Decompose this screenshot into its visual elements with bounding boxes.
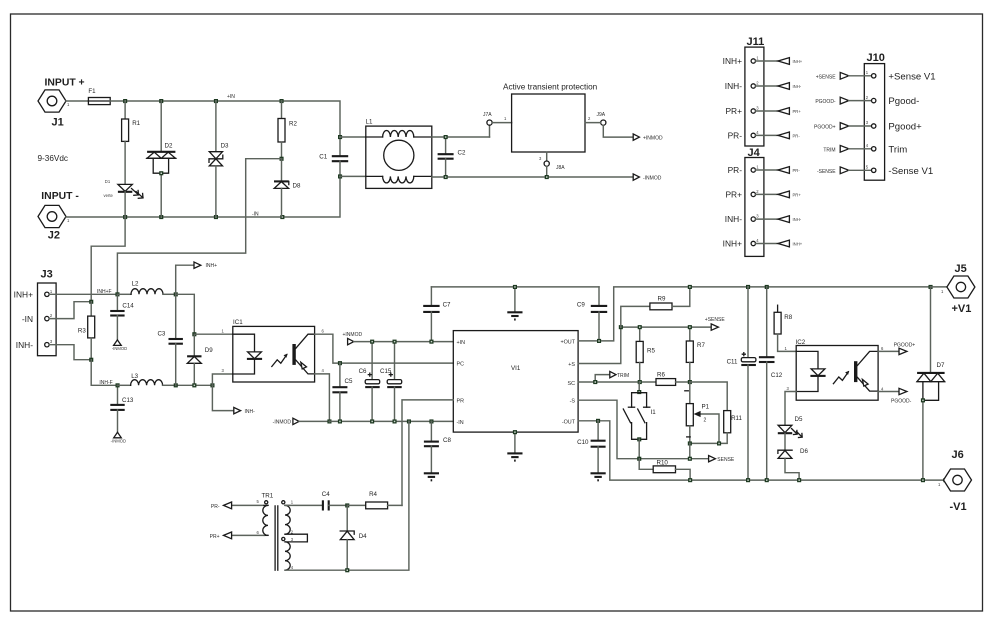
svg-text:Trim: Trim [888, 144, 907, 155]
svg-text:-IN: -IN [457, 420, 464, 426]
svg-text:INH-: INH- [793, 84, 802, 89]
node junction J8A rail [545, 175, 549, 179]
node junction C12 rail [765, 285, 769, 289]
resistor R1 [122, 101, 141, 141]
svg-text:PR: PR [457, 398, 465, 404]
wire C1 to L1 bottom [340, 175, 366, 177]
node junction C5 top [338, 361, 342, 365]
node junction J6 [943, 478, 947, 482]
net arrow -SENSE [709, 456, 735, 464]
wire -IN bottom rail [66, 176, 340, 217]
J10 pin 5 -Sense [817, 165, 933, 177]
svg-text:PR+: PR+ [793, 192, 802, 197]
svg-text:C15: C15 [380, 368, 392, 375]
node junction I1 bottom [637, 457, 641, 461]
node junction VI1 bottom [513, 430, 517, 434]
J3 pin 1 INH+ [14, 289, 53, 300]
svg-text:R9: R9 [658, 296, 666, 303]
inductor L2 [117, 281, 175, 295]
node junction D3 bottom rail [214, 215, 218, 219]
connector J5 [941, 263, 975, 315]
svg-text:P1: P1 [702, 404, 710, 411]
connector J8A [539, 152, 565, 177]
node junction D8 bottom rail [280, 215, 284, 219]
J11 pin 4 PR- [728, 130, 801, 141]
common-mode choke L1 [366, 119, 432, 189]
net arrow PR- [211, 502, 232, 510]
capacitor C14 [110, 294, 134, 340]
svg-text:-Sense V1: -Sense V1 [888, 166, 933, 177]
transformer TR1 [232, 493, 308, 571]
svg-text:PC: PC [457, 362, 465, 368]
wire IC1 pin4 down [315, 374, 330, 422]
svg-text:C13: C13 [122, 397, 134, 404]
J11 pin 1 INH+ [723, 56, 803, 67]
svg-text:J10: J10 [867, 52, 885, 64]
svg-text:R7: R7 [697, 342, 705, 349]
capacitor C10 [577, 421, 605, 474]
wire D6 to bottom rail [785, 458, 799, 480]
svg-text:INH+F: INH+F [97, 289, 112, 295]
capacitor C8 [424, 421, 452, 473]
svg-text:-SENSE: -SENSE [817, 169, 836, 175]
zener D6 [778, 433, 809, 458]
node junction R5/I1 [638, 380, 642, 384]
wire IC2 pin4 PGOOD- [878, 387, 912, 405]
wire PC line [340, 362, 453, 364]
node junction R2/D8 [280, 157, 284, 161]
net arrow TRIM [595, 371, 629, 382]
J4 pin 4 INH+ [723, 238, 803, 249]
J10 pin 1 +Sense [816, 70, 936, 82]
svg-text:D7: D7 [937, 362, 945, 369]
net arrow +INMOD out [633, 134, 663, 142]
wire J3 pin2 to R3 top node [49, 302, 91, 319]
svg-text:PR+: PR+ [725, 189, 742, 199]
svg-text:I1: I1 [651, 409, 657, 416]
capacitor C11 polarized [727, 287, 756, 480]
svg-text:PR-: PR- [793, 168, 801, 173]
capacitor C6 polarized [359, 342, 380, 422]
svg-text:C1: C1 [319, 154, 327, 161]
switch I1 [623, 382, 656, 459]
wire R3 bottom to INH-F node [91, 360, 117, 386]
node junction D1 bottom rail [123, 215, 127, 219]
svg-text:-IN: -IN [22, 314, 33, 324]
wire -IN rail drop to R3 top [91, 217, 125, 302]
svg-text:R1: R1 [132, 120, 140, 127]
svg-text:PGOOD+: PGOOD+ [814, 125, 836, 131]
connector J10 [864, 52, 885, 180]
power flag -INMOD C14 [112, 340, 127, 351]
resistor R8 [774, 305, 796, 351]
svg-text:C4: C4 [322, 491, 330, 498]
svg-text:D8: D8 [293, 183, 301, 190]
svg-text:INH-: INH- [793, 217, 802, 222]
svg-text:C5: C5 [345, 378, 353, 385]
net arrow -INMOD out [633, 174, 662, 182]
capacitor C1 [319, 137, 348, 176]
power flag -INMOD C13 [111, 432, 126, 443]
potentiometer P1 [685, 382, 719, 443]
wire TR1 pin1 to C4 [285, 504, 323, 506]
node junction D7 box [921, 398, 925, 402]
connector J9A [585, 112, 633, 137]
svg-text:R3: R3 [78, 328, 86, 335]
TVS D2 [147, 101, 176, 217]
svg-text:IC2: IC2 [796, 339, 806, 346]
node junction D9 bottom [192, 383, 196, 387]
svg-text:J2: J2 [48, 230, 60, 242]
svg-text:INH+: INH+ [14, 290, 33, 300]
svg-text:-INMOD: -INMOD [112, 346, 127, 351]
wire PR line [402, 400, 453, 506]
node junction C1 top [338, 135, 342, 139]
ground VI1 bottom [507, 432, 522, 461]
node junction wiper [717, 441, 721, 445]
svg-text:J5: J5 [955, 263, 967, 275]
svg-text:INH+: INH+ [793, 59, 803, 64]
wire SC line [578, 381, 656, 383]
svg-text:L1: L1 [366, 119, 373, 126]
svg-text:SENSE: SENSE [717, 457, 735, 463]
optocoupler IC1 [233, 319, 315, 382]
bidirectional zener D3 [209, 101, 229, 217]
node junction C8 top [429, 419, 433, 423]
active transient protection box [503, 83, 598, 153]
svg-text:+Sense V1: +Sense V1 [888, 71, 935, 82]
resistor R4 [347, 491, 402, 509]
capacitor C15 polarized [380, 342, 402, 422]
J11 pin 2 INH- [725, 81, 802, 92]
LED D1 [104, 141, 144, 217]
svg-text:J7A: J7A [483, 112, 492, 118]
capacitor C13 [110, 385, 134, 432]
node junction J5 [929, 285, 933, 289]
resistor R5 [636, 327, 655, 382]
node junction R7/P1 [688, 380, 692, 384]
connector J4 [745, 147, 764, 256]
svg-text:R6: R6 [657, 372, 665, 379]
node junction C6 top [370, 340, 374, 344]
svg-text:-IN: -IN [252, 212, 259, 218]
node junction TR1 riser [407, 419, 411, 423]
svg-text:J9A: J9A [597, 112, 606, 118]
resistor R10 [639, 459, 690, 480]
net arrow -INMOD in [273, 418, 330, 425]
node junction -S/P1 [688, 457, 692, 461]
capacitor C5 [332, 363, 353, 421]
svg-text:C11: C11 [727, 359, 738, 366]
wire P1 bottom to -S line [689, 443, 691, 458]
net arrow +SENSE [705, 317, 726, 330]
wire top line C7 to C9 [431, 286, 599, 288]
svg-text:C2: C2 [458, 150, 466, 157]
J4 pin 1 PR- [728, 165, 801, 176]
LED D5 [778, 416, 803, 438]
svg-text:INH-: INH- [725, 214, 742, 224]
wire +S riser [578, 327, 621, 363]
svg-text:PGOOD+: PGOOD+ [894, 343, 916, 349]
svg-text:IC1: IC1 [233, 319, 243, 326]
svg-text:2: 2 [704, 418, 707, 424]
connector J11 [745, 36, 764, 146]
connector J1 [38, 78, 85, 129]
node junction C11 bottom rail [746, 478, 750, 482]
svg-text:R10: R10 [657, 460, 669, 467]
svg-text:J3: J3 [41, 269, 53, 281]
svg-text:PR-: PR- [793, 133, 801, 138]
node junction D3 top [214, 99, 218, 103]
svg-text:INH+: INH+ [723, 56, 742, 66]
svg-text:Active transient protection: Active transient protection [503, 83, 598, 92]
svg-text:D6: D6 [800, 448, 808, 455]
wire J3 pin3 to R3 bottom node [49, 345, 91, 360]
svg-text:D5: D5 [795, 416, 803, 423]
svg-text:TRIM: TRIM [617, 373, 629, 379]
svg-text:INH-: INH- [725, 81, 742, 91]
ground top [507, 287, 522, 320]
svg-text:INH-: INH- [16, 340, 33, 350]
node junction D4 bottom [345, 568, 349, 572]
J3 pin 3 INH- [16, 339, 53, 350]
diode D9 [187, 334, 213, 385]
svg-text:L2: L2 [132, 281, 139, 288]
capacitor C3 [157, 294, 182, 385]
wire +IN top rail [110, 101, 340, 137]
svg-text:R5: R5 [647, 348, 655, 355]
wire L1 to C2 bottom rail [432, 176, 633, 178]
node junction R3 bottom [89, 358, 93, 362]
svg-text:+V1: +V1 [952, 303, 972, 315]
node junction C10 top [596, 419, 600, 423]
resistor R9 [621, 287, 690, 327]
TVS D7 [917, 287, 945, 480]
svg-text:C7: C7 [443, 302, 451, 309]
svg-text:-S: -S [570, 399, 576, 405]
svg-text:TR1: TR1 [262, 493, 274, 500]
node junction C6 bottom [370, 419, 374, 423]
node junction IC1 pin3/INH- [210, 383, 214, 387]
svg-text:-INMOD: -INMOD [643, 176, 662, 182]
node junction R7 top [688, 325, 692, 329]
J10 pin 4 Trim [823, 143, 907, 155]
wire L1 to C2 top [432, 136, 490, 138]
node junction L2 right [174, 292, 178, 296]
wire -IN rail to VI1 [329, 420, 453, 422]
node junction F1/R1 [123, 99, 127, 103]
svg-text:R2: R2 [289, 121, 297, 128]
svg-text:-INMOD: -INMOD [111, 439, 126, 444]
ground C10 [591, 473, 606, 480]
node junction D9 top [192, 332, 196, 336]
svg-text:PR-: PR- [211, 504, 220, 510]
svg-text:C14: C14 [122, 303, 134, 310]
svg-text:J4: J4 [748, 147, 761, 159]
node junction INH+F [115, 292, 119, 296]
svg-text:INPUT +: INPUT + [45, 78, 85, 89]
svg-text:+IN: +IN [457, 340, 466, 346]
wire IC1 pin3 [212, 374, 232, 385]
node junction D2 box [159, 171, 163, 175]
J3 pin 2 -IN [22, 313, 53, 324]
wire J1 to F1 [66, 100, 88, 102]
wire C1 to L1 top [340, 136, 366, 138]
node junction pin4/-IN [327, 419, 331, 423]
wire INH-F rail [176, 384, 213, 386]
capacitor C4 [322, 491, 347, 511]
fuse F1 [88, 88, 110, 105]
ground C8 [424, 473, 439, 480]
node junction C9 bottom [597, 339, 601, 343]
node junction C5 bottom [338, 419, 342, 423]
J4 pin 2 PR+ [725, 189, 801, 200]
svg-text:J1: J1 [52, 117, 64, 129]
node junction C12 bottom rail [765, 478, 769, 482]
svg-text:PR+: PR+ [725, 106, 742, 116]
svg-text:C12: C12 [771, 372, 783, 379]
node junction R5 top [638, 325, 642, 329]
inductor L3 [118, 373, 176, 385]
wire rail to J5 [931, 286, 947, 288]
capacitor C7 [423, 287, 451, 342]
svg-text:D3: D3 [221, 143, 229, 150]
J10 pin 3 Pgood+ [814, 120, 922, 132]
node junction C7 bottom [429, 340, 433, 344]
node junction D6 rail [797, 478, 801, 482]
svg-text:verte: verte [104, 193, 114, 198]
wire D8 node to INH+F drop [117, 159, 281, 295]
svg-text:J11: J11 [747, 36, 765, 48]
svg-text:R4: R4 [369, 491, 377, 498]
svg-text:+INMOD: +INMOD [343, 332, 363, 338]
node junction C1 bottom [338, 174, 342, 178]
svg-text:PGOOD-: PGOOD- [815, 99, 836, 105]
svg-text:R11: R11 [731, 415, 742, 422]
svg-text:INH+: INH+ [793, 242, 803, 247]
svg-text:TRIM: TRIM [823, 147, 835, 153]
svg-text:-INMOD: -INMOD [273, 420, 292, 426]
svg-text:INH+: INH+ [723, 239, 742, 249]
svg-text:+SENSE: +SENSE [816, 74, 837, 80]
svg-text:+OUT: +OUT [560, 339, 575, 345]
node junction TRIM [593, 380, 597, 384]
wire IC2 pin6 PGOOD+ [878, 343, 915, 355]
node junction C15 bottom [393, 419, 397, 423]
capacitor C2 [438, 137, 466, 177]
wire -OUT line [578, 421, 946, 480]
svg-text:C6: C6 [359, 368, 367, 375]
svg-text:D2: D2 [165, 143, 173, 150]
svg-text:L3: L3 [131, 373, 138, 380]
connector J7A [483, 112, 512, 137]
svg-text:INH-F: INH-F [99, 380, 112, 386]
svg-text:Pgood-: Pgood- [888, 96, 919, 107]
svg-text:+INMOD: +INMOD [643, 136, 663, 142]
node junction C15 top [393, 340, 397, 344]
wire J3 pin1 to INH+F node [49, 293, 117, 295]
node junction R10 bottom rail [688, 478, 692, 482]
wire IC1 pin1 [194, 333, 233, 335]
connector J2 [38, 191, 79, 242]
svg-text:+IN: +IN [227, 94, 235, 100]
svg-text:R8: R8 [784, 314, 792, 321]
wire +SENSE line [621, 326, 711, 328]
wire IC1 pin6 to PC node [315, 334, 340, 363]
J4 pin 3 INH- [725, 214, 802, 225]
resistor R3 [78, 302, 95, 360]
net arrow +INMOD in [343, 332, 454, 345]
optocoupler IC2 [796, 339, 879, 400]
wire SC to R11 [690, 382, 727, 411]
node junction D2 top [159, 99, 163, 103]
svg-text:C8: C8 [443, 437, 451, 444]
wire IC2 pin3 to D5 [785, 392, 796, 425]
svg-text:C10: C10 [577, 439, 589, 446]
zener D4 [340, 505, 367, 570]
connector J3 [38, 269, 57, 356]
node junction C3 bottom [174, 383, 178, 387]
J10 pin 2 Pgood- [815, 95, 919, 107]
svg-text:F1: F1 [88, 88, 96, 95]
svg-text:D1: D1 [105, 179, 111, 184]
svg-text:+S: +S [568, 362, 575, 368]
svg-text:C9: C9 [577, 302, 585, 309]
svg-text:PR+: PR+ [793, 109, 802, 114]
svg-text:9-36Vdc: 9-36Vdc [38, 154, 69, 163]
J11 pin 3 PR+ [725, 106, 801, 117]
resistor R2 [278, 101, 297, 159]
connector J6 [938, 449, 972, 513]
wire INH+F to IC1 pin1 node [176, 294, 195, 334]
node junction R2 top [280, 99, 284, 103]
svg-text:+SENSE: +SENSE [705, 317, 726, 323]
node junction ground top [513, 285, 517, 289]
svg-text:D4: D4 [359, 533, 367, 540]
zener D8 [274, 159, 301, 217]
converter module VI1 [453, 331, 578, 433]
wire TR1 pin4 line [285, 421, 409, 570]
svg-text:INPUT -: INPUT - [41, 191, 79, 202]
svg-text:J6: J6 [952, 449, 964, 461]
capacitor C12 [759, 287, 783, 480]
node junction R9/+V1 rail [688, 285, 692, 289]
svg-text:INH+: INH+ [206, 263, 218, 269]
node junction R3 top [89, 300, 93, 304]
node junction INH-F [116, 383, 120, 387]
wire -S line [578, 400, 709, 459]
resistor R11 [690, 411, 743, 444]
svg-text:-V1: -V1 [950, 501, 967, 513]
svg-text:D9: D9 [205, 347, 213, 354]
node junction +S/+SENSE [619, 325, 623, 329]
svg-text:Pgood+: Pgood+ [888, 122, 922, 133]
node junction D2 bottom rail [159, 215, 163, 219]
svg-text:PGOOD-: PGOOD- [891, 399, 912, 405]
net arrow INH- [212, 385, 255, 415]
svg-text:SC: SC [568, 381, 576, 387]
node junction D7 bottom rail [921, 478, 925, 482]
svg-text:INH-: INH- [245, 409, 256, 415]
resistor R6 [656, 372, 690, 386]
node junction C4/R4/D4 [345, 503, 349, 507]
svg-text:PR-: PR- [728, 165, 743, 175]
svg-text:C3: C3 [157, 331, 165, 338]
node junction P1 bottom [688, 441, 692, 445]
svg-text:VI1: VI1 [511, 365, 521, 372]
node junction C2 top [444, 135, 448, 139]
wire +OUT line to +V1 rail [578, 287, 930, 341]
